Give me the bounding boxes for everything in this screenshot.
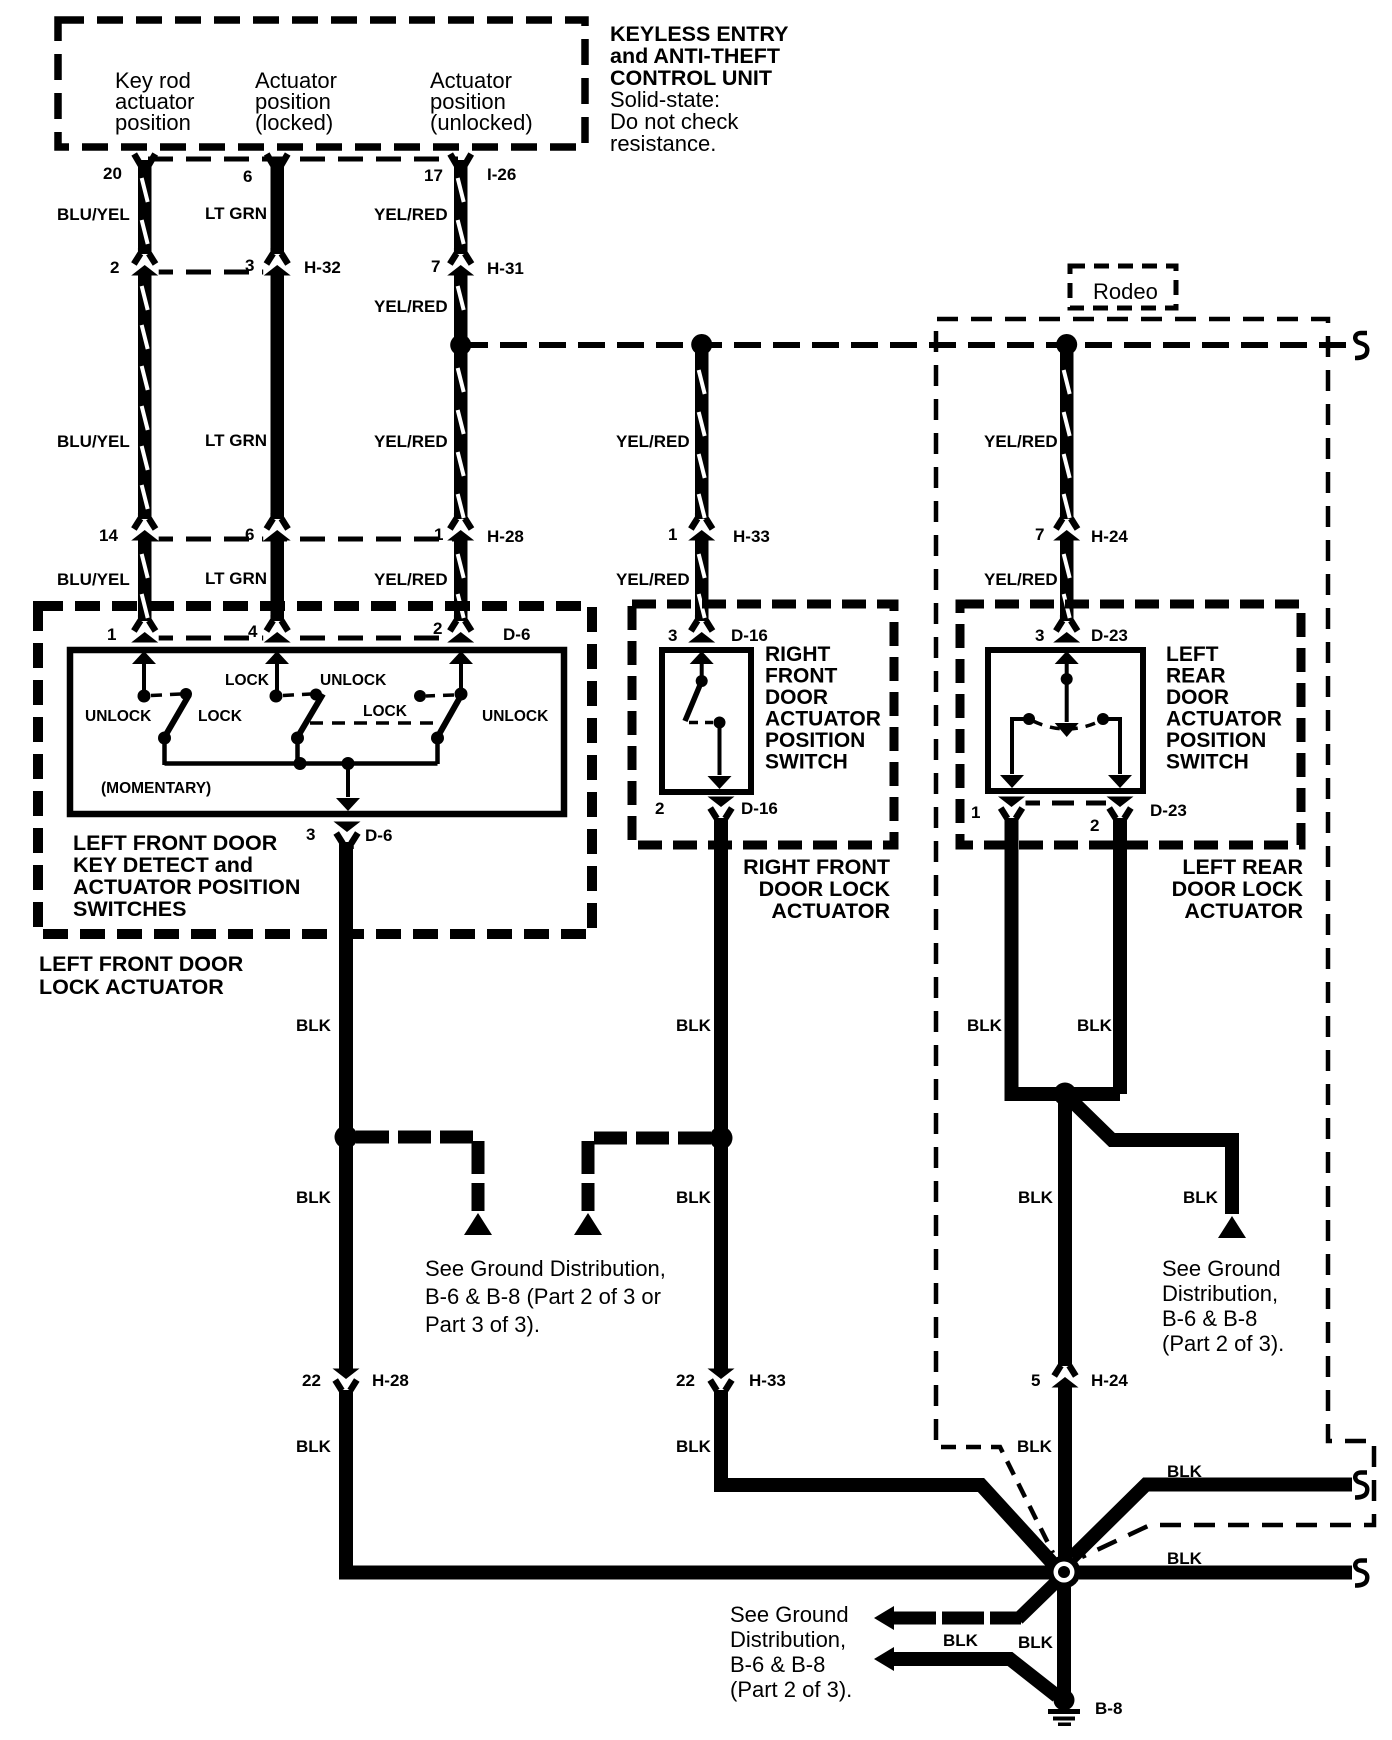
svg-text:(unlocked): (unlocked) (430, 110, 533, 135)
switch pole 4 entry arrow (265, 651, 289, 695)
ground distribution triangle right of pair (574, 1213, 602, 1235)
node at left rear branch (1056, 334, 1077, 355)
unlock switch blade (437, 692, 463, 738)
unlock switch dashed throw link (426, 695, 454, 696)
svg-text:LEFT REAR: LEFT REAR (1182, 855, 1303, 879)
left rear door actuator position switch title (1166, 643, 1282, 774)
left front door lock actuator title (39, 952, 244, 999)
right front door actuator position switch title (765, 643, 881, 774)
wire BLK left rear junction down to ground junction (1058, 1094, 1072, 1560)
svg-text:KEYLESS ENTRY: KEYLESS ENTRY (610, 22, 788, 46)
unlock switch common node (431, 732, 444, 745)
switch position labels (85, 672, 549, 725)
switch pole 2 entry arrow (449, 651, 473, 691)
svg-text:KEY DETECT and: KEY DETECT and (73, 853, 253, 877)
svg-text:Distribution,: Distribution, (730, 1627, 846, 1652)
key detect switch blade (164, 695, 189, 738)
svg-text:See Ground: See Ground (730, 1602, 849, 1627)
svg-text:H-24: H-24 (1091, 527, 1128, 546)
lock switch blade (297, 694, 323, 738)
BLK wire labels (296, 1016, 1219, 1652)
svg-text:BLK: BLK (1017, 1437, 1053, 1456)
svg-text:POSITION: POSITION (1166, 729, 1266, 752)
connector H-24 pin 5 (1051, 1360, 1079, 1388)
svg-text:BLU/YEL: BLU/YEL (57, 570, 130, 589)
svg-text:1: 1 (971, 803, 980, 822)
key detect switch pole 1 entry arrow (132, 651, 156, 695)
lr switch right output with arrow (1103, 719, 1132, 788)
svg-text:D-6: D-6 (503, 625, 530, 644)
svg-text:YEL/RED: YEL/RED (374, 432, 448, 451)
svg-text:5: 5 (1031, 1371, 1040, 1390)
lr switch dashed travel arc (1033, 721, 1100, 729)
svg-text:22: 22 (302, 1371, 321, 1390)
svg-text:SWITCH: SWITCH (1166, 751, 1249, 774)
svg-text:D-6: D-6 (365, 826, 392, 845)
hatch marks wire YEL/RED pin 17 (458, 178, 464, 618)
svg-text:YEL/RED: YEL/RED (374, 205, 448, 224)
ground distribution triangle far right (1218, 1216, 1246, 1238)
left front door lock actuator dashed enclosure (38, 606, 592, 934)
svg-text:Rodeo: Rodeo (1093, 279, 1158, 304)
svg-text:BLU/YEL: BLU/YEL (57, 205, 130, 224)
left front door switch section title (73, 831, 300, 921)
connector H-31 pin 7 (447, 248, 475, 276)
svg-text:BLK: BLK (1077, 1016, 1113, 1035)
svg-text:2: 2 (1090, 816, 1099, 835)
svg-text:(locked): (locked) (255, 110, 333, 135)
pin number and connector id labels, top section (99, 164, 1128, 645)
hatch marks wire BLU/YEL (142, 178, 148, 618)
svg-text:BLK: BLK (296, 1437, 332, 1456)
rf switch pivot node (696, 675, 708, 687)
lock switch dashed throw link (283, 694, 311, 696)
wire YEL/RED left rear branch (1060, 345, 1074, 634)
ground stud B-8 (1048, 1690, 1080, 1727)
svg-text:H-33: H-33 (749, 1371, 786, 1390)
svg-text:1: 1 (668, 525, 677, 544)
harness dashed tie row H-32/H-31 (148, 270, 272, 275)
svg-text:ACTUATOR POSITION: ACTUATOR POSITION (73, 875, 300, 899)
wire BLK left rear actuator pin 2 (1113, 818, 1127, 1094)
svg-text:position: position (115, 110, 191, 135)
key detect switch dashed throw link (151, 694, 181, 696)
lock switch throw node (310, 689, 322, 701)
wire BLU/YEL keyless pin 20 (138, 160, 152, 634)
svg-text:LEFT FRONT DOOR: LEFT FRONT DOOR (73, 831, 278, 855)
rf switch entry arrow (690, 651, 714, 678)
svg-text:ACTUATOR: ACTUATOR (765, 708, 881, 731)
see ground distribution note (right) (1162, 1256, 1284, 1356)
svg-text:17: 17 (424, 166, 443, 185)
off-page squiggle right run (1355, 1561, 1367, 1586)
rf switch throw node (714, 717, 726, 729)
svg-text:resistance.: resistance. (610, 131, 716, 156)
off-page arrow dashed ground lead (874, 1606, 894, 1630)
keyless entry title text (610, 22, 788, 156)
connector H-28 pin 1 (447, 513, 475, 541)
svg-text:YEL/RED: YEL/RED (616, 432, 690, 451)
unlock switch throw node (414, 690, 426, 702)
svg-text:BLK: BLK (296, 1016, 332, 1035)
left rear door actuator dashed enclosure (960, 604, 1301, 845)
left rear door lock actuator title (1172, 855, 1304, 923)
left front door switch assembly box (70, 650, 564, 814)
svg-text:H-32: H-32 (304, 258, 341, 277)
svg-text:20: 20 (103, 164, 122, 183)
dashed ground drop from left BLK wire (356, 1137, 478, 1211)
dashed BLK lead to ground junction (894, 1612, 1021, 1625)
svg-text:DOOR LOCK: DOOR LOCK (1172, 877, 1304, 901)
connector D-23 pin 1 (998, 797, 1026, 825)
svg-text:RIGHT: RIGHT (765, 643, 831, 666)
wire BLK right front door actuator to ground junction (721, 818, 1056, 1567)
svg-text:UNLOCK: UNLOCK (85, 708, 152, 725)
wire BLK branch to right ground triangle (1069, 1098, 1232, 1214)
svg-text:YEL/RED: YEL/RED (984, 570, 1058, 589)
connector H-33 pin 22 (707, 1369, 735, 1397)
svg-text:2: 2 (655, 799, 664, 818)
Rodeo variant dashed region (936, 319, 1374, 1557)
svg-text:BLK: BLK (1018, 1188, 1054, 1207)
svg-text:BLK: BLK (676, 1016, 712, 1035)
svg-text:POSITION: POSITION (765, 729, 865, 752)
svg-text:ACTUATOR: ACTUATOR (1184, 899, 1303, 923)
svg-text:BLU/YEL: BLU/YEL (57, 432, 130, 451)
connector D-23 pin 3 (1053, 615, 1081, 643)
svg-text:1: 1 (107, 625, 116, 644)
svg-text:H-33: H-33 (733, 527, 770, 546)
off-page squiggle upper right run (1355, 1473, 1367, 1498)
svg-text:DOOR: DOOR (765, 686, 828, 709)
svg-text:LOCK: LOCK (225, 672, 270, 689)
svg-text:14: 14 (99, 526, 118, 545)
svg-text:LT GRN: LT GRN (205, 204, 267, 223)
svg-text:2: 2 (433, 619, 442, 638)
svg-text:B-6 & B-8: B-6 & B-8 (1162, 1306, 1257, 1331)
lr switch left throw node (1023, 713, 1035, 725)
svg-text:H-24: H-24 (1091, 1371, 1128, 1390)
wire YEL/RED keyless pin 17 (454, 160, 468, 634)
svg-text:3: 3 (306, 825, 315, 844)
dashed ground drop from middle BLK wire (588, 1138, 711, 1211)
svg-text:DOOR: DOOR (1166, 686, 1229, 709)
ground junction ring (1048, 1556, 1081, 1589)
svg-text:BLK: BLK (296, 1188, 332, 1207)
rf switch output drop with arrow (708, 723, 732, 790)
lr switch center blade with arrow (1055, 679, 1079, 737)
svg-text:FRONT: FRONT (765, 665, 837, 688)
svg-text:REAR: REAR (1166, 665, 1226, 688)
svg-text:and ANTI-THEFT: and ANTI-THEFT (610, 44, 780, 68)
harness dashed tie row H-28 (148, 537, 458, 542)
svg-text:B-6 & B-8: B-6 & B-8 (730, 1652, 825, 1677)
svg-text:Distribution,: Distribution, (1162, 1281, 1278, 1306)
svg-text:BLK: BLK (967, 1016, 1003, 1035)
off-page arrow solid ground lead (874, 1647, 894, 1671)
long dashed branch line to off-page (461, 342, 1352, 348)
svg-text:YEL/RED: YEL/RED (374, 297, 448, 316)
wire BLK ground junction to off-page right (1079, 1566, 1352, 1580)
off-page squiggle top right (1355, 333, 1367, 358)
svg-text:I-26: I-26 (487, 165, 516, 184)
connector H-28 pin 22 (332, 1369, 360, 1397)
connector H-32 pin 3 (263, 248, 291, 276)
key detect switch drop wire (162, 738, 167, 765)
node middle BLK wire to ground drop (710, 1127, 733, 1150)
lr switch right throw node (1097, 713, 1109, 725)
svg-text:1: 1 (434, 525, 443, 544)
svg-text:7: 7 (1035, 525, 1044, 544)
node at right front branch (691, 334, 712, 355)
lr switch left output with arrow (1000, 719, 1029, 788)
svg-text:LOCK: LOCK (198, 708, 243, 725)
svg-text:LT GRN: LT GRN (205, 431, 267, 450)
key detect switch (left): pivot node (138, 690, 151, 703)
svg-text:RIGHT FRONT: RIGHT FRONT (743, 855, 890, 879)
svg-text:6: 6 (245, 525, 254, 544)
unlock position switch (right): pivot node (455, 688, 468, 701)
output drop wire with arrow (336, 763, 360, 811)
connector H-24 pin 7 (1053, 513, 1081, 541)
see ground distribution note (center) (425, 1256, 666, 1337)
svg-text:3: 3 (245, 256, 254, 275)
connector D-6 pin 3 (333, 822, 361, 850)
rf switch dashed throw link (689, 721, 713, 725)
svg-text:LEFT FRONT DOOR: LEFT FRONT DOOR (39, 952, 244, 976)
wire BLK ground junction down to ground stud (1057, 1587, 1071, 1698)
svg-text:D-23: D-23 (1150, 801, 1187, 820)
switch common bus (165, 761, 438, 766)
svg-text:LOCK ACTUATOR: LOCK ACTUATOR (39, 975, 224, 999)
control unit pin function labels (115, 68, 533, 135)
harness dashed tie row D-6 pins (148, 636, 458, 641)
svg-text:H-28: H-28 (487, 527, 524, 546)
svg-text:H-28: H-28 (372, 1371, 409, 1390)
wire YEL/RED right front branch (695, 345, 709, 634)
Rodeo region lower left dashed jog into ground junction (941, 1447, 1053, 1553)
lock switch drop wire (295, 738, 300, 765)
svg-text:YEL/RED: YEL/RED (984, 432, 1058, 451)
key detect switch throw node (180, 688, 192, 700)
lock switch common node (291, 732, 304, 745)
svg-text:LT GRN: LT GRN (205, 569, 267, 588)
svg-text:D-16: D-16 (731, 626, 768, 645)
svg-text:LEFT: LEFT (1166, 643, 1219, 666)
connector H-33 pin 1 (688, 513, 716, 541)
svg-text:LOCK: LOCK (363, 703, 408, 720)
svg-text:See Ground: See Ground (1162, 1256, 1281, 1281)
hatch marks wire YEL/RED H-33 branch (699, 370, 705, 618)
connector I-26 pin 20 (134, 154, 155, 166)
lr switch entry arrow (1055, 651, 1079, 676)
rf switch blade (685, 681, 702, 721)
lr pins dashed tie row D-23 (1018, 801, 1114, 806)
svg-text:UNLOCK: UNLOCK (320, 672, 387, 689)
connector D-23 pin 2 (1106, 797, 1134, 825)
wire LT GRN keyless pin 6 (271, 160, 285, 634)
mechanical link dashed line between switches (310, 721, 437, 725)
svg-text:B-6 & B-8 (Part 2 of 3 or: B-6 & B-8 (Part 2 of 3 or (425, 1284, 661, 1309)
svg-text:2: 2 (110, 258, 119, 277)
right front door lock actuator title (743, 855, 890, 923)
connector D-16 pin 3 (688, 615, 716, 643)
svg-text:D-23: D-23 (1091, 626, 1128, 645)
connector D-16 pin 2 (707, 797, 735, 825)
ground distribution triangle left (464, 1213, 492, 1235)
bus node at output (342, 757, 355, 770)
svg-text:(Part 2 of 3).: (Part 2 of 3). (730, 1677, 852, 1702)
see ground distribution note (bottom) (730, 1602, 852, 1702)
svg-text:Part 3 of 3).: Part 3 of 3). (425, 1312, 540, 1337)
svg-text:BLK: BLK (1183, 1188, 1219, 1207)
harness dashed tie row I-26 (148, 157, 458, 162)
svg-text:B-8: B-8 (1095, 1699, 1122, 1718)
diagonal of dashed BLK lead (1018, 1583, 1055, 1619)
wire BLK ground junction to off-page upper right (1072, 1485, 1352, 1558)
svg-text:BLK: BLK (1167, 1549, 1203, 1568)
connector I-26 pin 6 (267, 154, 288, 166)
svg-text:4: 4 (248, 622, 258, 641)
right front door actuator position switch box (662, 650, 751, 792)
svg-text:ACTUATOR: ACTUATOR (1166, 708, 1282, 731)
key detect switch common node (158, 732, 171, 745)
svg-text:ACTUATOR: ACTUATOR (771, 899, 890, 923)
node left BLK wire to ground drop (335, 1126, 358, 1149)
svg-text:BLK: BLK (943, 1631, 979, 1650)
connector H-32 pin 2 (left) (131, 248, 159, 276)
svg-text:DOOR LOCK: DOOR LOCK (759, 877, 891, 901)
node at YEL/RED pin 17 wire (450, 335, 471, 356)
svg-text:BLK: BLK (676, 1437, 712, 1456)
connector H-28 pin 6 (263, 513, 291, 541)
right front door actuator dashed enclosure (632, 604, 894, 845)
wire BLK left front door actuator to ground junction (346, 842, 1056, 1573)
svg-text:See Ground Distribution,: See Ground Distribution, (425, 1256, 666, 1281)
svg-text:(MOMENTARY): (MOMENTARY) (101, 780, 211, 797)
svg-text:22: 22 (676, 1371, 695, 1390)
node left rear BLK junction (1054, 1083, 1077, 1106)
svg-text:SWITCH: SWITCH (765, 751, 848, 774)
lr switch pivot node (1061, 673, 1073, 685)
wire BLK left rear actuator pin 1 (1012, 818, 1121, 1094)
svg-text:BLK: BLK (1018, 1633, 1054, 1652)
connector D-6 pin 2 (447, 615, 475, 643)
svg-text:YEL/RED: YEL/RED (616, 570, 690, 589)
solid BLK lead to ground stud (894, 1659, 1057, 1696)
hatch marks wire YEL/RED H-24 branch (1064, 370, 1070, 618)
svg-text:UNLOCK: UNLOCK (482, 708, 549, 725)
bus node at lock switch (294, 757, 307, 770)
connector D-6 pin 4 (263, 615, 291, 643)
svg-text:H-31: H-31 (487, 259, 524, 278)
svg-text:6: 6 (243, 167, 252, 186)
svg-text:7: 7 (431, 257, 440, 276)
lock position switch (middle): pivot node (270, 690, 283, 703)
svg-text:3: 3 (1035, 626, 1044, 645)
svg-text:BLK: BLK (676, 1188, 712, 1207)
wire colour labels, top section (57, 204, 1058, 589)
keyless entry control unit box (58, 20, 585, 147)
svg-text:SWITCHES: SWITCHES (73, 897, 186, 921)
left rear door actuator position switch box (988, 650, 1143, 791)
svg-text:D-16: D-16 (741, 799, 778, 818)
connector D-6 pin 1 (131, 615, 159, 643)
connector H-28 pin 14 (131, 513, 159, 541)
Rodeo variant label box (1070, 266, 1176, 308)
svg-text:3: 3 (668, 626, 677, 645)
svg-text:(Part 2 of 3).: (Part 2 of 3). (1162, 1331, 1284, 1356)
connector I-26 pin 17 (450, 154, 471, 166)
unlock switch drop wire (435, 738, 440, 764)
svg-text:YEL/RED: YEL/RED (374, 570, 448, 589)
